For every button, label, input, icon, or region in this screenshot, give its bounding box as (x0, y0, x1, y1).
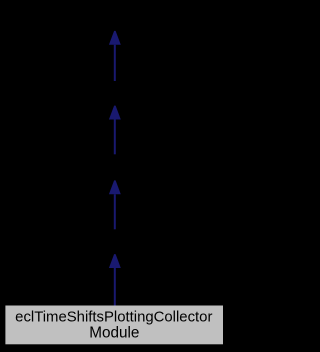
svg-text:eclTimeShiftsPlottingCollector: eclTimeShiftsPlottingCollector (15, 309, 212, 325)
inheritance arrow 2 (109, 106, 121, 155)
class box eclTimeShiftsPlottingCollectorModule (5, 306, 223, 345)
inheritance arrow 3 (109, 180, 121, 229)
inheritance arrow 4 (into class box) (109, 254, 121, 306)
inheritance arrow 1 (topmost) (109, 31, 121, 81)
svg-text:Module: Module (89, 325, 139, 342)
